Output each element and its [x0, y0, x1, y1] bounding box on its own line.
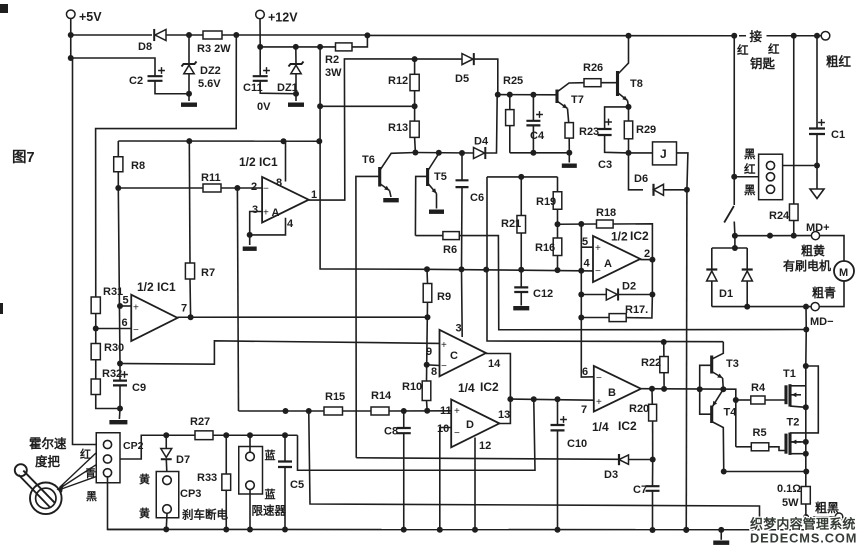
- ground symbol bottom: [720, 530, 722, 540]
- svg-text:−: −: [454, 428, 460, 439]
- wire T1 source: [790, 406, 806, 407]
- resistor R16: [553, 238, 562, 256]
- svg-text:R9: R9: [437, 291, 451, 303]
- svg-text:R10: R10: [402, 381, 422, 393]
- resistor R10: [422, 381, 431, 401]
- relay J: [653, 142, 677, 165]
- ground C12: [513, 306, 529, 310]
- node MD+ terminal: [811, 232, 819, 240]
- svg-text:青: 青: [85, 466, 96, 480]
- wire R27 right: [213, 434, 298, 436]
- node +5V terminal: [66, 10, 75, 19]
- svg-text:R18: R18: [596, 207, 616, 219]
- ground C9: [118, 409, 121, 420]
- resistor R27: [195, 431, 213, 440]
- svg-text:3: 3: [456, 323, 462, 335]
- op-amp U1B IC1: [131, 295, 177, 341]
- svg-text:T8: T8: [630, 78, 643, 90]
- svg-text:IC2: IC2: [480, 380, 499, 394]
- svg-text:D3: D3: [604, 469, 618, 481]
- svg-text:接: 接: [750, 29, 763, 44]
- throttle rotation arrow: [57, 485, 64, 493]
- svg-text:R4: R4: [751, 382, 766, 394]
- wire R14 to R10: [389, 410, 451, 412]
- svg-text:R2: R2: [325, 54, 339, 66]
- wire R32 bottom: [96, 395, 120, 409]
- wire +5V rail y=35 left: [71, 34, 152, 36]
- capacitor C3: [605, 107, 629, 129]
- wire IC2C pin8: [427, 364, 440, 367]
- connector pins: [766, 161, 774, 169]
- diode D3: [618, 454, 620, 465]
- wire shunt bottom: [805, 504, 807, 529]
- svg-text:粗青: 粗青: [812, 285, 836, 300]
- wire R18 feedback: [613, 224, 652, 260]
- svg-text:红: 红: [737, 43, 749, 57]
- resistor R13: [410, 121, 419, 137]
- svg-text:R29: R29: [636, 124, 656, 136]
- wire IC2A output: [640, 259, 652, 261]
- svg-text:−: −: [596, 373, 602, 384]
- svg-text:3W: 3W: [325, 67, 342, 79]
- wire CP2 signal: [120, 435, 166, 459]
- wire y=153 left segment: [415, 152, 473, 155]
- svg-text:织梦内容管理系统: 织梦内容管理系统: [750, 517, 856, 532]
- wire IC2A pin5: [581, 224, 593, 247]
- diode D6: [654, 184, 664, 195]
- svg-text:T1: T1: [783, 368, 796, 380]
- svg-text:R14: R14: [371, 390, 392, 402]
- resistor R29: [628, 107, 630, 121]
- svg-text:D8: D8: [138, 41, 152, 53]
- transistor T2 gate: [784, 434, 787, 454]
- svg-text:B: B: [608, 387, 616, 399]
- wire switch lower: [733, 222, 736, 236]
- svg-text:刹车断电: 刹车断电: [182, 508, 228, 522]
- ground below DZ1: [288, 103, 304, 107]
- wire R17 to output column: [626, 295, 652, 319]
- ground below DZ2: [181, 103, 197, 107]
- svg-text:红: 红: [80, 447, 91, 461]
- wire D2 to output: [617, 260, 652, 295]
- svg-text:−: −: [263, 184, 269, 195]
- svg-text:MD+: MD+: [806, 222, 830, 234]
- svg-text:红: 红: [768, 42, 780, 56]
- switch blade: [724, 206, 734, 223]
- svg-text:+5V: +5V: [79, 10, 102, 24]
- wire MD- line: [712, 306, 811, 308]
- wire T6 emitter: [380, 184, 390, 191]
- wire T4 base: [700, 389, 712, 414]
- svg-text:1/4: 1/4: [592, 420, 609, 434]
- wire connector left: [734, 176, 758, 178]
- svg-text:A: A: [604, 258, 612, 270]
- capacitor C2: [71, 58, 155, 76]
- zener DZ2: [188, 35, 190, 64]
- svg-text:T5: T5: [434, 171, 447, 183]
- svg-text:14: 14: [488, 358, 501, 370]
- throttle lead wires: [60, 444, 106, 489]
- node 粗红 terminal: [821, 31, 830, 40]
- wire R2 to rail: [352, 35, 367, 47]
- resistor R11: [203, 184, 221, 192]
- wire throttle rail: [166, 434, 195, 436]
- resistor R3: [203, 31, 222, 39]
- wire key column: [733, 36, 735, 205]
- resistor R2: [336, 43, 353, 51]
- svg-text:R26: R26: [583, 62, 603, 74]
- wire R5 to T2 gate: [769, 447, 786, 451]
- wire R30 to R32: [95, 360, 97, 379]
- svg-text:−: −: [595, 266, 601, 277]
- wire motor to MD-: [819, 281, 844, 307]
- wire mid rail y=270: [319, 268, 321, 270]
- svg-text:9: 9: [426, 346, 432, 358]
- svg-text:6: 6: [582, 366, 588, 378]
- capacitor C11: [259, 47, 261, 76]
- wire x581 column: [581, 224, 594, 377]
- capacitor C1: [816, 36, 818, 128]
- resistor R9: [426, 269, 429, 283]
- resistor R6: [415, 235, 443, 237]
- resistor R15: [324, 407, 343, 415]
- resistor R14: [371, 407, 389, 415]
- svg-text:粗黄: 粗黄: [801, 243, 825, 258]
- svg-text:黄: 黄: [139, 506, 150, 520]
- wire connector right: [783, 165, 818, 167]
- svg-text:1/2 IC1: 1/2 IC1: [239, 155, 278, 169]
- svg-text:1/2 IC1: 1/2 IC1: [137, 280, 176, 294]
- svg-text:R33: R33: [197, 472, 217, 484]
- zener DZ1: [295, 47, 297, 64]
- wire IC2B output row: [641, 389, 736, 400]
- svg-text:T2: T2: [787, 417, 800, 429]
- svg-text:D7: D7: [176, 454, 190, 466]
- resistor R30: [91, 344, 100, 360]
- wire rail R3 to R2 junction: [222, 34, 367, 36]
- transistor T7: [555, 90, 558, 104]
- resistor R17: [581, 317, 609, 319]
- wire T1T2 bracket: [790, 366, 818, 433]
- wire MD+ to motor: [820, 236, 844, 261]
- resistor R26: [584, 79, 601, 87]
- wire R15 to R14: [343, 410, 372, 412]
- svg-text:C9: C9: [132, 382, 146, 394]
- wire J to D6 node: [677, 153, 688, 190]
- svg-text:R13: R13: [388, 122, 408, 134]
- transistor T1 gate: [784, 385, 787, 404]
- svg-text:红: 红: [744, 162, 756, 176]
- wire staircase to far right: [309, 411, 760, 529]
- wire rail y=141: [118, 140, 320, 142]
- wire T4 emitter row: [724, 471, 807, 473]
- svg-text:R11: R11: [201, 172, 221, 184]
- resistor R20: [651, 389, 653, 405]
- wire IC2C pin3 stem: [461, 269, 464, 337]
- op-amp U2A IC2: [593, 236, 640, 282]
- svg-text:−: −: [441, 361, 447, 372]
- svg-text:R21: R21: [501, 218, 521, 230]
- op-amp U1A IC1: [262, 177, 309, 223]
- wire T1 body arrow: [792, 394, 802, 396]
- capacitor C6: [461, 153, 463, 180]
- wire R31 to R30: [95, 314, 97, 344]
- wire rail y270: [427, 269, 593, 271]
- transistor T6: [378, 167, 381, 187]
- resistor R31: [91, 297, 100, 314]
- wire pin9 link: [120, 341, 440, 364]
- capacitor C9: [113, 381, 127, 386]
- svg-text:IC2: IC2: [618, 419, 637, 433]
- wire T8 emitter: [618, 93, 628, 101]
- wire +5V column to CP2: [71, 58, 97, 445]
- wire T7 emitter: [557, 101, 568, 109]
- wire IC1A pin4 stem: [250, 218, 286, 235]
- wire T7 collector: [557, 83, 584, 92]
- svg-text:+: +: [595, 243, 601, 254]
- wire to 粗黑 terminal: [806, 516, 835, 518]
- svg-text:5: 5: [123, 295, 129, 307]
- wire R6 to frame: [459, 236, 806, 330]
- svg-text:C6: C6: [470, 192, 484, 204]
- svg-text:黑: 黑: [744, 148, 756, 161]
- svg-text:C7: C7: [633, 484, 647, 496]
- capacitor C5: [284, 435, 286, 461]
- diode D1a: [711, 248, 713, 270]
- wire T4 collector: [713, 389, 724, 406]
- svg-text:R31: R31: [103, 286, 123, 298]
- svg-text:R15: R15: [325, 391, 345, 403]
- wire MD+ line: [735, 235, 811, 237]
- svg-text:4: 4: [584, 258, 591, 270]
- svg-text:+: +: [454, 406, 460, 417]
- svg-text:R23: R23: [579, 126, 599, 138]
- svg-text:+: +: [263, 208, 269, 219]
- wire T5 collector: [428, 154, 439, 172]
- resistor R19: [557, 177, 559, 192]
- svg-text:D5: D5: [455, 73, 469, 85]
- capacitor C4: [532, 95, 534, 121]
- diode D4: [474, 148, 485, 159]
- svg-text:C10: C10: [567, 438, 587, 450]
- wire R11 to pin2 node: [221, 187, 262, 189]
- resistor R33: [225, 435, 227, 474]
- wire T2 body arrow: [792, 441, 802, 443]
- throttle shaft: [19, 471, 55, 507]
- svg-text:限速器: 限速器: [252, 504, 287, 518]
- svg-text:A: A: [272, 207, 280, 219]
- limiter pins: [246, 452, 255, 461]
- diode D7: [165, 435, 167, 448]
- svg-text:R3 2W: R3 2W: [197, 43, 231, 55]
- wire MD- column: [805, 307, 807, 366]
- wire T6 collector: [380, 153, 416, 171]
- svg-text:C12: C12: [533, 288, 553, 300]
- svg-text:T6: T6: [362, 154, 375, 166]
- connector 黑红黑 box: [759, 154, 783, 200]
- svg-text:C: C: [450, 350, 458, 362]
- wire T1 drain: [790, 385, 806, 387]
- wire +5V stem: [70, 19, 72, 59]
- svg-text:8: 8: [431, 366, 437, 378]
- svg-text:5.6V: 5.6V: [198, 78, 221, 90]
- wire T3 base: [700, 365, 712, 389]
- ground T6: [383, 198, 399, 202]
- svg-text:D4: D4: [474, 136, 489, 148]
- svg-text:度把: 度把: [35, 454, 61, 469]
- svg-text:蓝: 蓝: [265, 448, 276, 462]
- svg-text:MD−: MD−: [810, 316, 834, 328]
- wire D3 line: [356, 458, 619, 460]
- wire C2 bottom: [155, 81, 189, 94]
- svg-text:0V: 0V: [257, 101, 271, 113]
- wire D4 up to base row: [485, 95, 498, 153]
- svg-text:D2: D2: [622, 281, 636, 293]
- svg-text:蓝: 蓝: [265, 487, 276, 501]
- svg-text:12: 12: [479, 440, 491, 452]
- svg-text:7: 7: [181, 303, 187, 315]
- svg-text:黑: 黑: [744, 184, 756, 197]
- svg-text:1/2: 1/2: [611, 230, 628, 244]
- wire keyswitch gap dashes: [739, 35, 771, 37]
- resistor R24: [793, 36, 795, 204]
- svg-text:R8: R8: [131, 160, 145, 172]
- wire +12V rail y=47: [260, 46, 335, 48]
- svg-text:黑: 黑: [86, 490, 97, 503]
- svg-text:5: 5: [582, 236, 588, 248]
- svg-text:R12: R12: [388, 75, 408, 87]
- svg-text:C1: C1: [831, 129, 845, 141]
- transistor T8: [616, 71, 619, 96]
- wire J/D6 ground line: [685, 190, 688, 530]
- wire T1T2 column: [805, 366, 807, 487]
- wire R29 node to J: [629, 152, 653, 154]
- resistor R32: [91, 379, 100, 395]
- svg-text:DEDECMS.COM: DEDECMS.COM: [750, 531, 857, 546]
- svg-text:R17.: R17.: [625, 304, 648, 316]
- resistor R23: [565, 123, 573, 139]
- wire R4R5 column: [735, 400, 737, 447]
- svg-text:5W: 5W: [782, 497, 799, 509]
- wire limiter stems: [249, 435, 251, 452]
- transistor T1 channel: [788, 384, 791, 406]
- capacitor C8: [403, 411, 405, 428]
- connector CP2 box: [96, 433, 120, 483]
- transistor T4: [710, 406, 713, 424]
- diode D1b: [746, 248, 748, 270]
- svg-text:8: 8: [276, 177, 282, 189]
- svg-text:R19: R19: [536, 196, 556, 208]
- svg-text:R16: R16: [535, 242, 555, 254]
- svg-text:1: 1: [311, 189, 317, 201]
- wire IC2D pin10: [440, 428, 451, 530]
- wire T6 base column: [356, 176, 380, 457]
- wire rail right of keyswitch: [771, 35, 821, 37]
- wire key node to D1 bracket: [734, 236, 736, 248]
- connector CP3 pins: [163, 476, 172, 485]
- wire T5 emitter: [428, 183, 437, 194]
- transistor T2 channel: [788, 433, 791, 455]
- diode D5: [462, 54, 473, 65]
- wire D3 to R20 node: [629, 459, 653, 461]
- svg-text:黄: 黄: [139, 472, 150, 486]
- svg-text:R22: R22: [641, 357, 661, 369]
- svg-text:T3: T3: [726, 358, 739, 370]
- throttle knob: [15, 464, 27, 476]
- wire +12V stem: [259, 19, 261, 47]
- svg-text:R7: R7: [201, 267, 215, 279]
- resistor R4: [736, 399, 751, 401]
- wire R12-R13 junction: [320, 105, 415, 107]
- svg-text:4: 4: [287, 218, 294, 230]
- resistor R25: [509, 95, 511, 110]
- wire T2 source: [790, 453, 806, 455]
- wire R3 node to R31 chain: [96, 35, 237, 297]
- wire IC1A pin3: [250, 212, 262, 235]
- wire rail to T8 collector junction: [367, 34, 734, 36]
- wire R15 row left: [239, 410, 325, 412]
- wire T2 mid lead: [790, 441, 806, 443]
- svg-text:R32: R32: [102, 368, 122, 380]
- svg-text:C5: C5: [290, 479, 304, 491]
- wire ground rail: [108, 528, 807, 530]
- op-amp U2C IC2: [440, 330, 487, 377]
- capacitor C12: [520, 270, 522, 287]
- wire C11 bottom: [260, 81, 296, 94]
- svg-text:R20: R20: [629, 403, 649, 415]
- wire IC1B pin6: [96, 328, 132, 330]
- svg-text:DZ1: DZ1: [277, 82, 298, 94]
- wire R19 bottom row: [558, 223, 597, 225]
- wire frame x487: [487, 177, 723, 342]
- svg-text:钥匙: 钥匙: [750, 56, 776, 71]
- svg-text:J: J: [660, 147, 667, 161]
- wire T4 emitter: [712, 422, 724, 472]
- svg-text:D6: D6: [634, 173, 648, 185]
- capacitor C7: [652, 460, 654, 486]
- svg-text:7: 7: [581, 404, 587, 416]
- svg-text:CP3: CP3: [180, 488, 201, 500]
- transistor T3: [710, 356, 713, 374]
- wire IC1B pin5: [120, 305, 131, 307]
- svg-text:有刷电机: 有刷电机: [783, 258, 831, 273]
- page edge mark: [0, 303, 3, 314]
- svg-text:R27: R27: [190, 416, 210, 428]
- wire IC2D pin12 stem: [474, 438, 476, 530]
- wire rail D8 to R3: [166, 34, 203, 36]
- svg-text:C2: C2: [129, 75, 143, 87]
- svg-text:−: −: [133, 325, 139, 336]
- wire D6 to junction: [664, 189, 687, 191]
- svg-text:2: 2: [644, 248, 650, 260]
- resistor R12: [414, 59, 416, 74]
- svg-text:粗黑: 粗黑: [815, 500, 839, 515]
- node +12V terminal: [256, 10, 265, 19]
- svg-text:6: 6: [122, 317, 128, 329]
- wire C3 node down to D6: [629, 153, 644, 190]
- svg-text:3: 3: [252, 204, 258, 216]
- diode D8: [155, 30, 166, 41]
- svg-text:IC2: IC2: [630, 229, 649, 243]
- svg-text:2: 2: [251, 181, 257, 193]
- svg-text:T7: T7: [571, 94, 584, 106]
- wire IC1A output frame: [309, 59, 462, 200]
- resistor R21: [520, 177, 522, 216]
- wire CP2 ground: [108, 477, 167, 530]
- connector CP2 pins: [103, 440, 111, 448]
- svg-text:C4: C4: [530, 130, 545, 142]
- svg-text:R30: R30: [104, 342, 124, 354]
